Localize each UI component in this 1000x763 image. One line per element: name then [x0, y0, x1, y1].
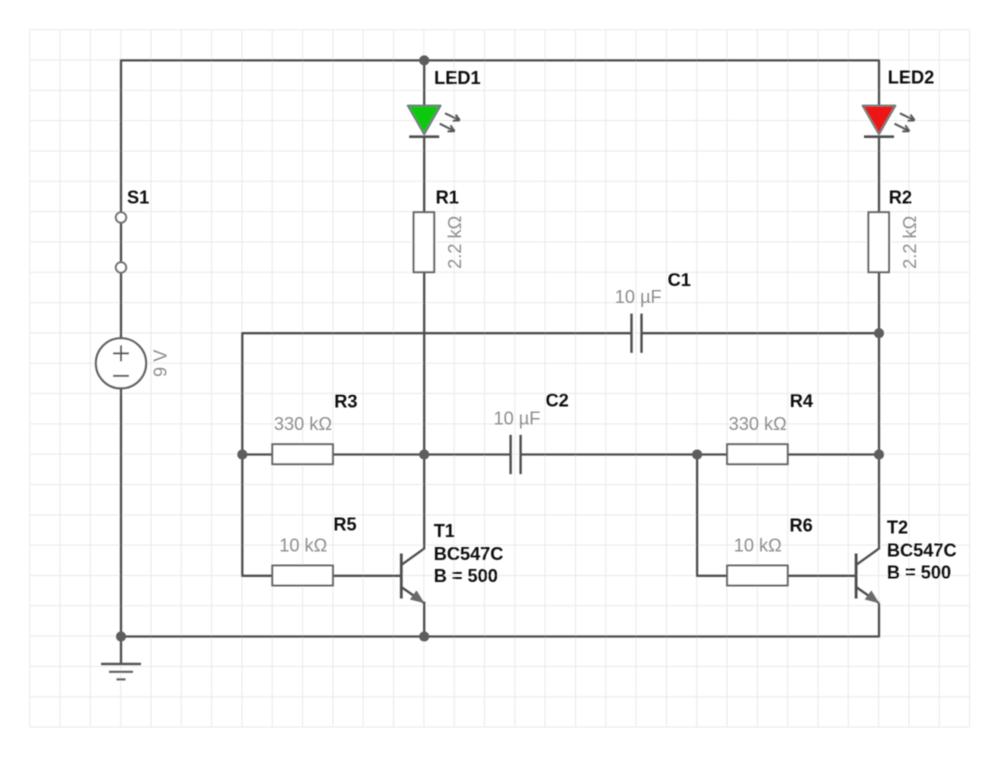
svg-text:LED2: LED2: [888, 68, 935, 88]
svg-text:BC547C: BC547C: [887, 541, 957, 561]
svg-text:10 µF: 10 µF: [615, 287, 662, 307]
svg-text:R2: R2: [889, 188, 912, 208]
svg-text:BC547C: BC547C: [434, 544, 504, 564]
svg-text:R4: R4: [790, 391, 814, 411]
svg-text:T1: T1: [434, 521, 455, 541]
svg-text:2.2 kΩ: 2.2 kΩ: [445, 216, 465, 269]
svg-text:330 kΩ: 330 kΩ: [274, 414, 332, 434]
svg-text:C2: C2: [546, 391, 569, 411]
svg-text:10 µF: 10 µF: [494, 408, 541, 428]
svg-text:9 V: 9 V: [150, 349, 170, 377]
svg-text:LED1: LED1: [434, 68, 481, 88]
svg-text:10 kΩ: 10 kΩ: [279, 535, 327, 555]
svg-text:B = 500: B = 500: [434, 566, 498, 586]
svg-text:B = 500: B = 500: [887, 563, 951, 583]
svg-text:S1: S1: [127, 188, 149, 208]
svg-text:R5: R5: [333, 515, 356, 535]
svg-text:2.2 kΩ: 2.2 kΩ: [900, 216, 920, 269]
svg-text:C1: C1: [668, 270, 691, 290]
svg-text:R6: R6: [790, 515, 813, 535]
svg-text:10 kΩ: 10 kΩ: [734, 535, 782, 555]
svg-text:R3: R3: [334, 391, 357, 411]
svg-text:330 kΩ: 330 kΩ: [729, 414, 787, 434]
svg-text:R1: R1: [436, 187, 459, 207]
svg-text:T2: T2: [887, 518, 908, 538]
